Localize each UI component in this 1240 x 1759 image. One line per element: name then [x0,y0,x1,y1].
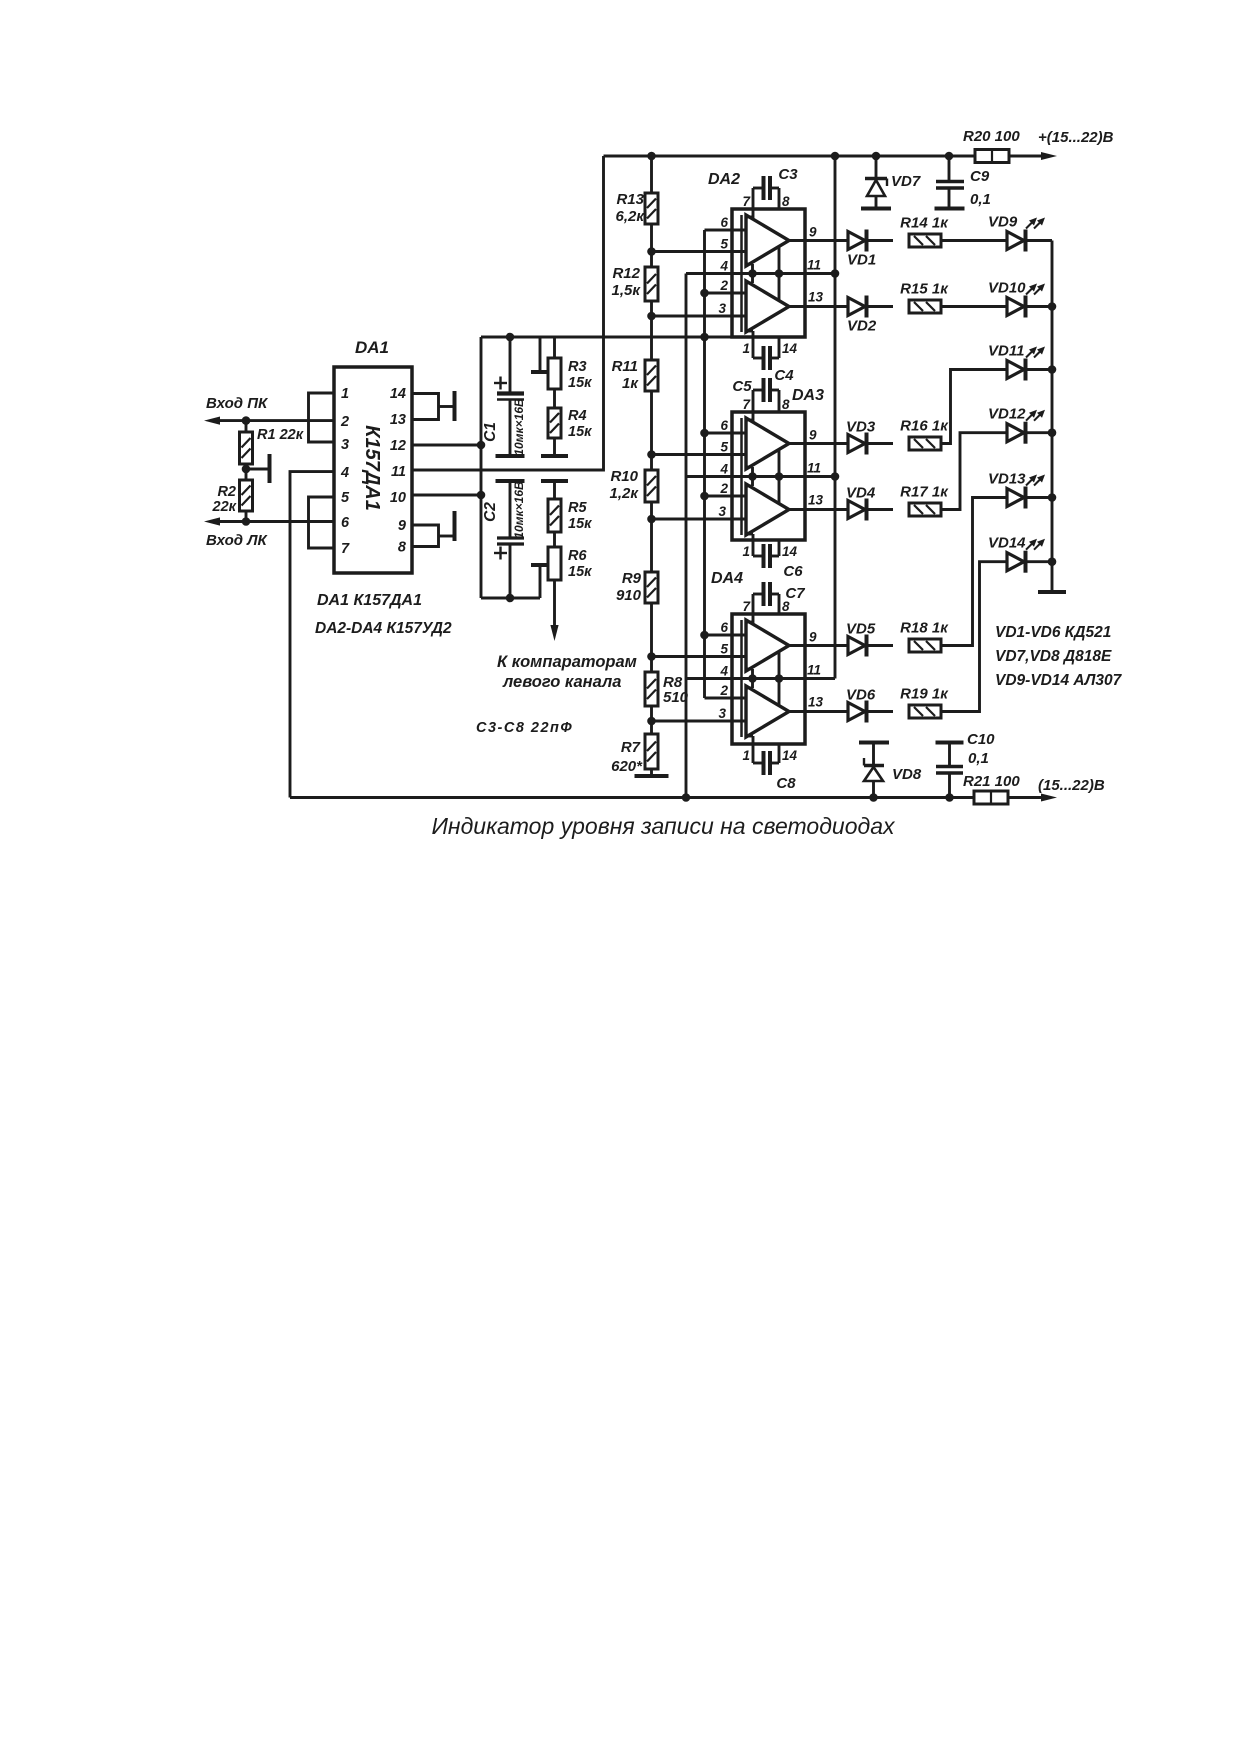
svg-text:15к: 15к [568,564,592,580]
svg-text:9: 9 [398,518,406,534]
capacitor plates above DA4 [762,582,766,606]
wire: DA3 feedback vertical [778,450,781,503]
svg-text:Вход ЛК: Вход ЛК [206,532,269,549]
svg-text:R20 100: R20 100 [963,128,1020,145]
wire: DA2 inner pin bus [740,215,743,332]
svg-text:15к: 15к [568,516,592,532]
node: led column junction [1048,493,1057,502]
wire: VD13 cathode to column [1027,496,1052,499]
svg-text:4: 4 [719,462,728,477]
node: R1/R2 junction [242,465,251,474]
svg-text:VD10: VD10 [988,280,1026,297]
capacitor C1 lead top [509,337,512,392]
wire: DA1 pin6 input line [216,520,334,523]
bar: C1 bottom termination [496,454,525,458]
wire: DA4 pin14 lead [778,744,781,763]
op-amp block DA4 box [732,614,805,744]
svg-text:(15...22)В: (15...22)В [1038,777,1105,794]
node: divider tap pin5 DA4 [647,652,656,661]
wire: DA2 pin14 lead [778,337,781,358]
node: pin12 junction [477,441,486,450]
wire: DA2 pin8 lead [778,188,781,209]
svg-text:VD9-VD14 АЛ307: VD9-VD14 АЛ307 [995,672,1123,689]
wire: DA3 pin2 line [705,495,747,498]
svg-text:С3-С8 22пФ: С3-С8 22пФ [476,720,573,736]
svg-text:2: 2 [719,278,728,293]
capacitor plates below DA3 [762,544,766,568]
svg-text:R18 1к: R18 1к [900,620,949,637]
svg-text:VD11: VD11 [988,343,1024,360]
node: bus x704.5 joins output line [700,333,709,342]
node: DA4 feedback junction [775,674,784,683]
wire: DA2 pin6 line [705,229,747,232]
wire: DA2 pin5 line from divider [652,250,747,253]
node: divider tap pin5 DA3 [647,450,656,459]
label C1 plus [494,382,507,384]
resistor R21 [974,791,1008,804]
wire: DA3 inner pin bus [740,418,743,535]
node: bus x686 on bottom rail [682,793,691,802]
wire: DA3 mid input stub [746,466,753,469]
ground bar below R7 [635,774,669,778]
wire: R16 riser to VD11 [941,370,1007,444]
svg-text:6: 6 [720,418,728,433]
wire: DA4 inner pin bus [740,620,743,737]
node: led column junction [1048,365,1057,374]
svg-text:DA2: DA2 [708,171,740,188]
svg-text:VD9: VD9 [988,214,1018,231]
resistor R11 [645,360,658,391]
svg-text:С10: С10 [967,731,995,748]
svg-text:14: 14 [782,341,798,356]
node: DA3 pin6 bus tap [700,429,709,438]
svg-text:С4: С4 [774,367,794,384]
arrow: to comparators of left channel [550,625,558,641]
node: rail/divider junction [647,152,656,161]
wire: DA3 pin7 lead [752,390,755,421]
svg-text:К компараторам: К компараторам [497,653,637,671]
svg-text:13: 13 [390,412,406,428]
op-amp DA3.1 triangle [746,418,789,469]
svg-text:8: 8 [398,540,407,556]
capacitor plates above DA2 [762,176,766,200]
svg-text:DA3: DA3 [792,387,824,404]
wire: VD6 to R19 [868,710,893,713]
svg-text:1: 1 [742,341,750,356]
led VD14 [1007,553,1024,571]
bar: led column termination [1038,590,1066,594]
svg-text:R14 1к: R14 1к [900,215,949,232]
svg-text:С7: С7 [785,585,805,602]
wire: DA1 pin12 line [412,444,481,447]
op-amp DA2.1 triangle [746,215,789,266]
svg-text:С1: С1 [482,422,499,442]
led VD11 [1007,361,1024,379]
capacitor plates above DA3 [762,378,766,402]
svg-text:VD7: VD7 [891,173,921,190]
diode VD1 [848,232,865,250]
svg-text:8: 8 [782,194,790,209]
wire: branch to R3 bar [539,337,542,371]
led VD11 emission arrows [1026,349,1035,358]
svg-text:VD3: VD3 [846,419,876,436]
svg-text:10мк×16В: 10мк×16В [512,398,526,456]
svg-text:2: 2 [719,481,728,496]
bar: pins14-13 termination [453,391,457,421]
capacitor C9 [948,156,951,180]
wire: DA1 pin2 input line [216,419,334,422]
node: rail/VD7 junction [872,152,881,161]
svg-text:R17 1к: R17 1к [900,484,949,501]
wire: VD9 cathode to column [1027,239,1052,242]
wire: DA4 pin3 line from divider [652,720,747,723]
svg-text:К157ДА1: К157ДА1 [361,425,383,511]
capacitor lead DA4 bottom [753,762,762,765]
led VD12 [1007,424,1024,442]
led VD9 emission arrows [1026,220,1035,229]
wire: DA3 pin6 line [705,432,747,435]
zener VD7 [875,156,878,177]
wire: R15 to VD10 [941,305,1007,308]
wire: DA2 feedback vertical [778,247,781,300]
resistor R10 [645,470,658,502]
svg-text:R1 22к: R1 22к [257,427,304,443]
diode VD2 [848,298,865,316]
node: C1 top junction [506,333,515,342]
wire: DA1 pins14-13 bus [412,394,439,420]
node: divider tap pin5 DA2 [647,247,656,256]
svg-text:С8: С8 [776,775,796,792]
resistor R14 [909,234,941,247]
resistor R18 [909,639,941,652]
svg-text:R12: R12 [612,265,640,282]
svg-text:R15 1к: R15 1к [900,281,949,298]
arrow: input left channel [204,517,220,525]
svg-text:С6: С6 [783,563,803,580]
svg-text:14: 14 [782,748,798,763]
svg-text:VD1-VD6 КД521: VD1-VD6 КД521 [995,624,1111,641]
wire: rail corner down to DA1 pin11 line [412,156,604,470]
svg-text:910: 910 [616,587,642,604]
svg-text:6: 6 [341,515,350,531]
capacitor lead DA2 top [753,187,762,190]
svg-text:R9: R9 [622,570,642,587]
ic DA1 box [334,367,412,573]
svg-text:6,2к: 6,2к [616,208,646,225]
svg-text:5: 5 [720,642,728,657]
capacitor C2 plates [497,536,524,539]
diode VD6 [848,703,865,721]
wire: DA4 pin2 line [705,697,747,700]
resistor R3 [553,337,556,358]
svg-text:10: 10 [390,490,406,506]
wire: right vertical rail x=835 [834,156,837,679]
capacitor lead DA4 top [753,593,762,596]
wire: R14 to VD9 [941,239,1007,242]
svg-text:С5: С5 [732,378,752,395]
bar: branch termination lower [531,563,549,567]
wire: DA4 mid input stub [746,668,753,671]
svg-text:С3: С3 [778,166,798,183]
svg-text:R13: R13 [616,191,644,208]
svg-text:4: 4 [719,664,728,679]
node: DA2 pin2 bus tap [700,289,709,298]
wire: DA1 pins9-8 bus [412,525,439,547]
node: led column junction [1048,557,1057,566]
op-amp DA2.2 triangle [746,281,789,332]
label C2 plus [494,552,507,554]
svg-text:R6: R6 [568,548,587,564]
svg-text:DA2-DA4 К157УД2: DA2-DA4 К157УД2 [315,620,452,637]
resistor R12 [645,267,658,301]
resistor R8 [645,672,658,706]
wire: pins14-13 termination lead [439,405,454,408]
svg-text:VD12: VD12 [988,406,1026,423]
wire: DA4 pin8 lead [778,594,781,614]
svg-text:13: 13 [808,290,824,305]
capacitor C1 plates [497,391,524,395]
svg-text:9: 9 [809,428,817,443]
svg-text:0,1: 0,1 [970,191,991,208]
wire: DA1 pin10 line [412,494,481,497]
wire: DA4 pin4/11 line [686,677,835,680]
svg-text:5: 5 [720,440,728,455]
svg-text:1: 1 [742,544,750,559]
op-amp block DA2 box [732,209,805,337]
svg-text:2: 2 [340,414,349,430]
wire: VD3 to R16 [868,442,893,445]
wire: DA2 pin4/11 line [686,272,835,275]
svg-text:R4: R4 [568,408,587,424]
wire: DA3 pin1 lead [746,533,753,536]
svg-text:R11: R11 [612,358,638,375]
wire: R17 riser to VD12 [941,433,1007,510]
resistor R9 [645,572,658,603]
arrow: bottom rail output [1041,794,1057,802]
wire: DA2 pin1 lead [746,330,753,333]
svg-text:0,1: 0,1 [968,750,989,767]
wire: DA3 pin14 lead [778,540,781,556]
svg-text:R19 1к: R19 1к [900,686,949,703]
svg-text:1к: 1к [622,375,639,392]
wire: DA4 output 9 [789,644,848,647]
svg-text:6: 6 [720,215,728,230]
wire: DA1 pin4 to bottom rail [290,472,334,798]
op-amp DA3.2 triangle [746,484,789,535]
wire: DA4 feedback vertical [778,652,781,705]
led VD14 emission arrows [1026,541,1035,550]
svg-text:R16 1к: R16 1к [900,418,949,435]
svg-text:VD14: VD14 [988,535,1026,552]
wire: DA4 pin5 line from divider [652,655,747,658]
arrow: top rail output [1041,152,1057,160]
svg-text:3: 3 [718,301,726,316]
led VD12 emission arrows [1026,412,1035,421]
wire: DA2 pin7 lead [752,188,755,218]
node: DA2 mid junction [748,269,757,278]
bar: VD8 termination [859,741,889,745]
svg-text:1,2к: 1,2к [610,485,640,502]
svg-text:11: 11 [391,464,406,480]
wire: DA4 pin1 lead [746,735,753,738]
node: divider tap pin3 DA3 [647,515,656,524]
svg-text:1: 1 [341,386,349,402]
svg-text:1: 1 [742,748,750,763]
wire: DA3 pin8 lead [778,390,781,412]
svg-text:22к: 22к [212,499,237,515]
svg-text:11: 11 [807,663,821,678]
capacitor C2 lead bottom [509,545,512,598]
svg-text:13: 13 [808,695,824,710]
wire: R19 riser to VD14 [941,562,1007,712]
capacitor plates below DA2 [762,346,766,370]
svg-text:11: 11 [807,258,821,273]
op-amp DA4.2 triangle [746,686,789,737]
node: DA3 mid junction [748,472,757,481]
wire: DA2 pin2 line [705,292,747,295]
wire: VD11 cathode to column [1027,368,1052,371]
wire: non-inverting bus x=704.5 [703,230,706,698]
resistor R19 [909,705,941,718]
wire: divider chain vertical [650,156,653,775]
svg-text:R10: R10 [610,468,638,485]
node: C2 bottom junction [506,594,515,603]
resistor R15 [909,300,941,313]
wire: DA3 pin3 line from divider [652,518,747,521]
wire: output line from C1 node to DA2 bottom [481,336,732,339]
svg-text:13: 13 [808,493,824,508]
wire: DA2 pin3 line from divider [652,315,747,318]
bar: VD7 termination [861,207,891,211]
svg-text:R21 100: R21 100 [963,773,1020,790]
svg-text:VD13: VD13 [988,471,1026,488]
resistor R1 [245,421,248,432]
svg-text:3: 3 [341,437,349,453]
svg-text:11: 11 [807,461,821,476]
wire: VD4 to R17 [868,508,893,511]
bar: R4 bottom termination [541,454,568,458]
svg-text:DA1: DA1 [355,338,389,357]
op-amp block DA3 box [732,412,805,540]
wire: VD1 to R14 [868,239,893,242]
svg-text:VD8: VD8 [892,766,922,783]
svg-text:DA1 К157ДА1: DA1 К157ДА1 [317,592,422,609]
wire: +supply top rail [604,155,977,158]
node: R2 bottom [242,517,251,526]
wire: VD10 cathode to column [1027,305,1052,308]
svg-text:левого канала: левого канала [502,673,621,691]
wire: branch to R6 bar [539,566,542,598]
svg-text:4: 4 [719,259,728,274]
diode VD3 [848,435,865,453]
node: DA3 pin2 bus tap [700,492,709,501]
svg-text:R5: R5 [568,500,587,516]
resistor R6 [548,547,561,580]
svg-text:3: 3 [718,504,726,519]
wire: DA2 output 9 [789,239,848,242]
wire: VD14 cathode to column [1027,560,1052,563]
node: DA4 pin6 bus tap [700,631,709,640]
node: pin10 junction [477,491,486,500]
wire: negative bottom rail [290,796,974,799]
led VD13 [1007,489,1024,507]
wire: DA1 pins5-7 bus [309,497,335,548]
node: DA3 feedback junction [775,472,784,481]
node: C10 on bottom rail [945,793,954,802]
node: DA3 pin11 to rail [831,472,840,481]
wire: DA3 pin5 line from divider [652,453,747,456]
svg-text:5: 5 [341,490,350,506]
capacitor plates below DA4 [762,751,766,775]
svg-text:VD7,VD8 Д818Е: VD7,VD8 Д818Е [995,648,1112,665]
bar: C2 top termination [496,479,525,483]
svg-text:VD2: VD2 [847,318,877,335]
svg-text:R3: R3 [568,359,587,375]
svg-text:12: 12 [390,438,406,454]
led VD10 [1007,298,1024,316]
wire: R18 riser to VD13 [941,498,1007,646]
svg-text:Вход ПК: Вход ПК [206,395,269,412]
node: led column junction [1048,302,1057,311]
svg-text:DA4: DA4 [711,570,743,587]
op-amp DA4.1 triangle [746,620,789,671]
wire: DA4 pin6 line [705,634,747,637]
svg-text:620*: 620* [611,758,643,775]
resistor R20 [975,150,1009,163]
wire: vertical x=481 [480,337,483,598]
svg-text:2: 2 [719,683,728,698]
capacitor lead DA3 top [753,389,762,392]
node: DA4 mid junction [748,674,757,683]
svg-text:9: 9 [809,225,817,240]
resistor R13 [645,193,658,224]
resistor R16 [909,437,941,450]
node: VD8 on bottom rail [869,793,878,802]
svg-text:15к: 15к [568,424,592,440]
svg-text:Индикатор уровня записи на све: Индикатор уровня записи на светодиодах [431,813,896,839]
capacitor C2 lead top [509,481,512,537]
svg-text:С2: С2 [482,502,499,522]
node: led column junction [1048,428,1057,437]
svg-text:С9: С9 [970,168,990,185]
bar: pins9-8 termination [453,511,457,541]
wire: DA4 output 13 [789,710,848,713]
wire: DA3 pin4/11 line [686,475,835,478]
svg-text:VD5: VD5 [846,621,876,638]
led VD10 emission arrows [1026,286,1035,295]
wire: VD5 to R18 [868,644,893,647]
svg-text:+(15...22)В: +(15...22)В [1038,129,1114,146]
svg-text:VD1: VD1 [847,252,876,269]
wire: VD2 to R15 [868,305,893,308]
svg-text:14: 14 [782,544,798,559]
zener VD8 [872,781,875,798]
wire: DA2 mid input stub [746,263,753,266]
svg-text:VD6: VD6 [846,687,876,704]
svg-text:5: 5 [720,237,728,252]
resistor R17 [909,503,941,516]
ground bar at R1/R2 [268,454,272,483]
svg-text:1,5к: 1,5к [612,282,642,299]
resistor R2 [240,480,253,511]
wire: DA1 pin10 net bottom line [481,597,540,600]
node: DA2 pin11 to rail [831,269,840,278]
bar: C9 termination [935,207,965,211]
svg-text:3: 3 [718,706,726,721]
wire: VD12 cathode to column [1027,431,1052,434]
led VD9 [1007,232,1024,250]
svg-text:8: 8 [782,397,790,412]
